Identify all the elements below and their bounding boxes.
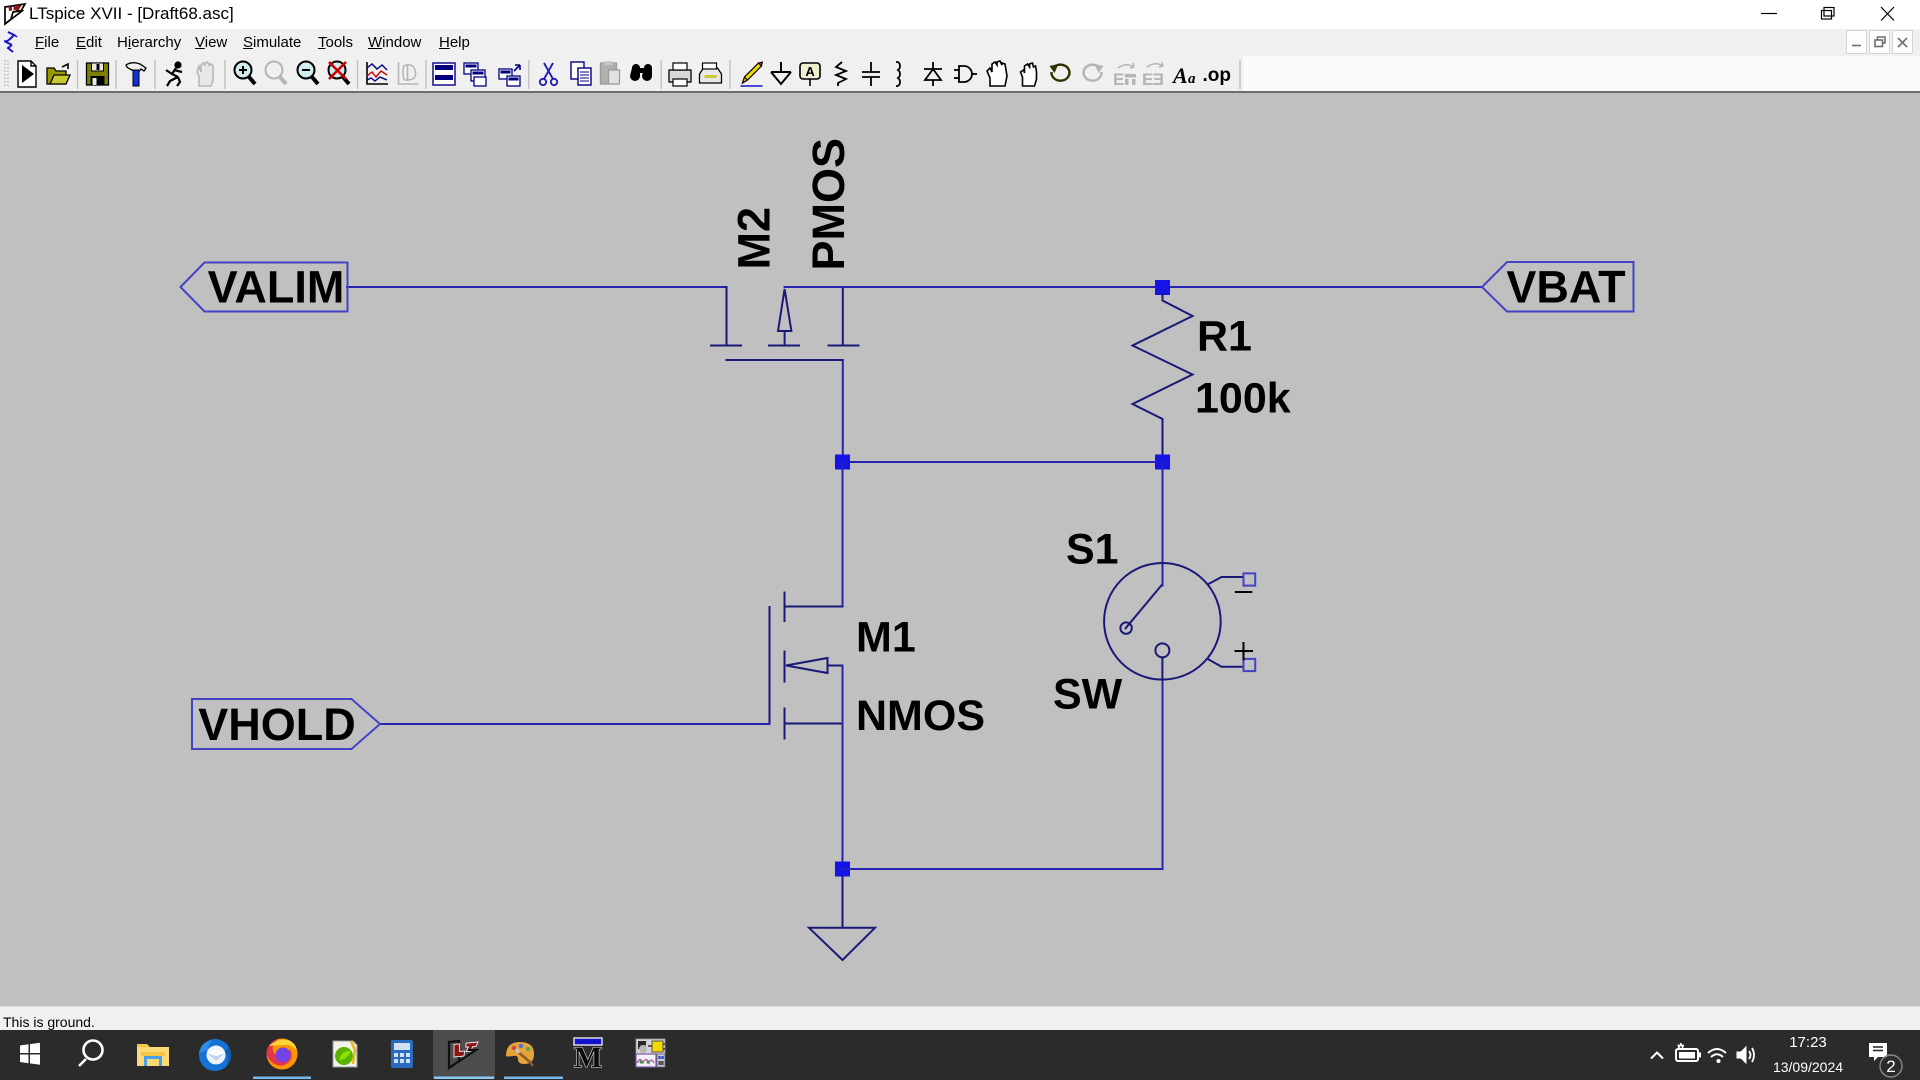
wire M2 gate drop [842, 360, 844, 462]
zoom rect gray [266, 62, 287, 85]
resistor R1 [1133, 294, 1193, 455]
wire pencil [741, 62, 763, 86]
wire switch top [1162, 462, 1164, 586]
mirror Em gray [1113, 63, 1136, 89]
junction node bottom [835, 862, 850, 877]
svg-text:NMOS: NMOS [856, 692, 985, 740]
capacitor icon [862, 62, 880, 86]
resistor icon [836, 62, 846, 86]
svg-text:a: a [1188, 71, 1196, 87]
junction node top [1155, 280, 1170, 295]
explorer [137, 1044, 169, 1066]
svg-text:.op: .op [1203, 65, 1232, 86]
svg-text:Ǝ: Ǝ [1153, 70, 1164, 89]
ground [809, 877, 875, 961]
pmos M2 [711, 287, 859, 360]
paste gray [601, 61, 620, 84]
wire bottom horizontal [843, 868, 1163, 870]
and gate icon [954, 66, 977, 82]
calculator [391, 1040, 413, 1068]
hand gray (stop) [197, 62, 213, 86]
print settings [700, 63, 722, 83]
zoom out [298, 62, 319, 85]
redo gray [1084, 64, 1104, 81]
svg-text:M2: M2 [729, 207, 780, 270]
notepad++ [333, 1041, 357, 1067]
print [669, 63, 691, 86]
svg-text:S1: S1 [1066, 526, 1119, 574]
text Aa [1171, 63, 1196, 88]
drag hand [987, 61, 1007, 86]
paint [506, 1042, 534, 1066]
run [18, 61, 36, 87]
copy [571, 62, 591, 85]
ground icon [771, 62, 791, 84]
svg-text:M1: M1 [856, 614, 916, 662]
wire M1 source down [842, 666, 844, 870]
svg-text:SW: SW [1053, 671, 1123, 719]
netlist gray [399, 62, 419, 84]
svg-text:2: 2 [1886, 1057, 1895, 1076]
miktex M [574, 1038, 602, 1074]
ltspice taskbar [449, 1041, 478, 1068]
svg-text:100k: 100k [1195, 375, 1291, 423]
diode icon [924, 62, 942, 86]
start [20, 1043, 40, 1065]
wire M1 drain [842, 462, 844, 607]
zoom in [235, 62, 256, 85]
window chrome [0, 0, 1920, 29]
wire VHOLD to M1 gate [380, 723, 770, 725]
svg-text:VBAT: VBAT [1506, 262, 1625, 313]
notification [1869, 1043, 1902, 1077]
svg-text:A: A [1171, 63, 1188, 88]
hammer [126, 63, 146, 86]
window tile [433, 63, 455, 85]
flag VALIM [181, 262, 348, 313]
zoom fit red x [329, 62, 350, 85]
active app slot highlight [433, 1030, 495, 1079]
find binoculars [630, 64, 652, 81]
svg-text:E: E [1142, 70, 1153, 89]
open [47, 64, 70, 84]
wire M2 source rail to VBAT [785, 286, 1482, 288]
inductor icon [896, 62, 900, 86]
tray wifi [1708, 1049, 1726, 1063]
nmos M1 [770, 593, 843, 739]
svg-text:13/09/2024: 13/09/2024 [1773, 1059, 1843, 1075]
thunderbird [199, 1039, 231, 1071]
junction node mid-right [1155, 455, 1170, 470]
kicad [636, 1039, 665, 1067]
runner [166, 63, 182, 87]
window cascade [464, 63, 486, 86]
wire mid horizontal [843, 461, 1163, 463]
.op [1203, 65, 1232, 86]
svg-text:E: E [1113, 70, 1124, 89]
svg-text:R1: R1 [1197, 313, 1252, 361]
grip [4, 60, 6, 88]
tray speaker [1737, 1047, 1754, 1063]
separators [78, 60, 1241, 89]
svg-text:A: A [805, 64, 815, 79]
net label icon [800, 63, 820, 86]
wire switch bottom [1162, 679, 1164, 869]
svg-text:M: M [574, 1041, 602, 1074]
flag VHOLD [192, 699, 380, 750]
window cascade arrow [499, 65, 520, 86]
svg-text:17:23: 17:23 [1789, 1034, 1827, 1051]
save [87, 63, 109, 85]
undo [1050, 64, 1070, 81]
junction node mid-left [835, 455, 850, 470]
search [79, 1041, 103, 1067]
rotate E3 gray [1142, 62, 1164, 89]
svg-text:VHOLD: VHOLD [198, 699, 356, 750]
cut [540, 63, 557, 85]
svg-text:VALIM: VALIM [208, 262, 345, 313]
flag VBAT [1482, 262, 1634, 313]
firefox [266, 1039, 297, 1070]
svg-text:PMOS: PMOS [803, 138, 854, 271]
open app underlines [253, 1077, 311, 1080]
tray battery [1676, 1043, 1701, 1061]
waveform [367, 62, 388, 84]
move hand [1021, 63, 1037, 86]
wire VALIM to M2 drain [347, 286, 727, 288]
switch S1 [1104, 563, 1255, 680]
